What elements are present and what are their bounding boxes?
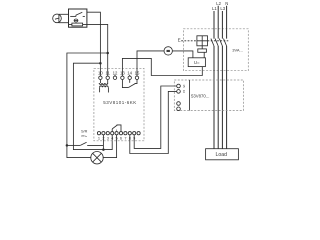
wire indicator to power unit <box>172 51 193 58</box>
stub block to supply <box>203 52 205 58</box>
terminal 8 <box>128 132 131 141</box>
wire terminal 15 to indicator <box>137 51 164 76</box>
svg-text:53V8101-6KK: 53V8101-6KK <box>103 100 137 105</box>
breaker pole 3 <box>219 39 222 46</box>
terminal b <box>177 90 181 94</box>
mains line N <box>226 6 228 149</box>
mains line L1 <box>213 11 215 149</box>
terminal 2 <box>102 132 105 141</box>
mains line L3 <box>221 11 223 149</box>
terminal 13 <box>120 70 125 79</box>
svg-text:16: 16 <box>182 90 186 94</box>
svg-text:12: 12 <box>113 70 118 75</box>
wire branch to S/R switch <box>67 53 108 145</box>
terminal a <box>177 84 181 88</box>
svg-text:6: 6 <box>120 135 122 140</box>
svg-text:3: 3 <box>107 135 109 140</box>
svg-text:E: E <box>178 38 181 43</box>
terminal 6 <box>119 132 122 141</box>
wire lamp to terminal 5 <box>103 135 117 158</box>
svg-text:m: m <box>82 134 85 138</box>
sensor bulb B1 <box>53 14 62 23</box>
terminal 14 <box>127 70 132 79</box>
drive unit M1 <box>197 36 208 46</box>
terminal 4 <box>111 132 115 141</box>
dashed box 53V8101-6KK <box>94 68 144 141</box>
svg-text:3VA...: 3VA... <box>232 47 243 52</box>
capillary tube <box>59 14 69 22</box>
breaker pole 2 <box>215 39 218 46</box>
terminal 5 <box>115 132 118 141</box>
terminal d <box>177 107 181 111</box>
mains line L2 <box>217 6 219 149</box>
divider line <box>189 80 191 111</box>
dashed control line E <box>181 40 197 42</box>
svg-text:1: 1 <box>98 135 100 140</box>
wire terminal 9 to remote unit <box>134 86 177 148</box>
svg-text:L1: L1 <box>212 6 217 11</box>
svg-text:L2: L2 <box>216 1 221 6</box>
wire terminal 13 to U= supply <box>122 58 202 76</box>
temperature symbol theta <box>74 19 78 22</box>
control block A1 <box>198 49 207 52</box>
stub drive to block <box>201 46 203 49</box>
svg-text:14: 14 <box>127 70 132 75</box>
terminal 9b <box>137 132 140 135</box>
terminal 7 <box>124 132 127 141</box>
power supply U= <box>188 58 205 67</box>
node J1 <box>66 144 69 147</box>
dashed linkage to contacts <box>208 40 229 42</box>
svg-text:N: N <box>225 1 228 6</box>
dashed box 53V870 <box>174 80 243 111</box>
node J4 <box>99 62 102 64</box>
breaker pole 1 <box>211 39 214 46</box>
svg-text:11: 11 <box>105 70 110 75</box>
svg-text:7: 7 <box>124 135 126 140</box>
svg-text:10: 10 <box>98 70 103 75</box>
terminal 11 <box>105 70 110 79</box>
terminal 1 <box>97 132 100 141</box>
breaker pole 4 <box>224 39 227 46</box>
relay contact K2 (4/5/6) <box>112 125 121 132</box>
terminal 15 <box>135 70 140 79</box>
heater resistor R1 <box>69 23 87 26</box>
indicator P1 <box>164 47 172 55</box>
wire terminal 2 down <box>102 135 104 150</box>
node J3 <box>106 52 109 55</box>
terminal 9 <box>133 132 136 141</box>
wire thermostat bottom to terminal 11 <box>87 24 108 76</box>
svg-text:S/R: S/R <box>81 130 88 134</box>
terminal 10 <box>98 70 103 79</box>
terminal c <box>177 102 181 106</box>
lamp H1 <box>91 152 103 164</box>
dashed box power unit <box>183 29 248 71</box>
svg-text:15: 15 <box>182 84 186 88</box>
switch S/R <box>67 130 104 146</box>
wire terminal 8 to remote unit <box>130 91 177 153</box>
wire J1 down to lamp <box>67 145 91 157</box>
svg-text:53V870...: 53V870... <box>191 94 209 99</box>
terminal 12 <box>113 70 118 79</box>
load box <box>206 149 239 160</box>
wire branch to terminal 4 <box>73 63 112 149</box>
svg-text:L3: L3 <box>220 6 225 11</box>
transformer T1 <box>99 80 108 93</box>
svg-text:Load: Load <box>216 152 228 158</box>
relay contact K1 (13/14/15) <box>122 80 137 88</box>
svg-text:U=: U= <box>194 60 200 65</box>
wire thermostat top to terminal 10 <box>87 12 101 76</box>
node J2 <box>102 148 105 151</box>
terminal 3 <box>106 132 109 141</box>
thermostat box F1 <box>69 9 87 27</box>
thermostat switch contact <box>70 12 85 16</box>
svg-text:4: 4 <box>111 135 114 140</box>
